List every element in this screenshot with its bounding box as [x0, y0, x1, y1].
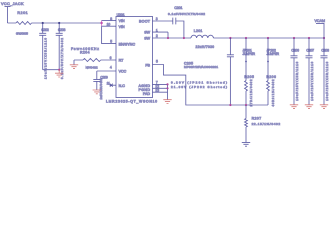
- junction VIN: [100, 22, 102, 24]
- wire AGND/PGND/PAD: [153, 84, 168, 99]
- resistor R201: [16, 22, 32, 25]
- ground IC: [163, 100, 171, 104]
- svg-text:C208: C208: [321, 49, 329, 53]
- svg-text:5: 5: [156, 60, 158, 64]
- node VCAM: [316, 23, 324, 38]
- ground R207: [242, 142, 250, 146]
- svg-text:R201: R201: [17, 11, 27, 15]
- svg-text:C202: C202: [41, 28, 49, 32]
- svg-text:VIN: VIN: [119, 19, 125, 23]
- resistor R204: [83, 59, 101, 62]
- wire input cap bottom rail: [43, 69, 60, 71]
- svg-text:10uF/25V/X5R/1210: 10uF/25V/X5R/1210: [325, 61, 329, 100]
- junction PGND: [166, 87, 168, 89]
- junction JP202 tap: [267, 37, 269, 39]
- wire BOOT: [153, 20, 173, 22]
- svg-text:FB: FB: [145, 64, 150, 68]
- svg-text:VIN: VIN: [119, 25, 125, 29]
- wire VIN pink link: [101, 21, 103, 27]
- svg-text:0R0/0805: 0R0/0805: [16, 31, 28, 35]
- svg-text:MP03P/25VAC0G0201: MP03P/25VAC0G0201: [184, 65, 218, 69]
- junction JP201 tap: [245, 37, 247, 39]
- svg-text:SW: SW: [144, 36, 150, 40]
- no-connect X: [110, 84, 113, 87]
- svg-text:7: 7: [156, 81, 158, 85]
- svg-text:SW: SW: [144, 31, 150, 35]
- ground VCC: [93, 90, 101, 94]
- junction C208 tap: [323, 37, 325, 39]
- svg-text:5: 5: [110, 40, 112, 44]
- svg-text:N.C: N.C: [119, 84, 126, 88]
- capacitor C202: [39, 33, 46, 69]
- ground C207: [305, 105, 313, 109]
- junction C202 tap: [42, 22, 44, 24]
- capacitor C206: [291, 38, 298, 105]
- wire RT: [74, 60, 116, 65]
- svg-text:0.1uF/50V/X7R/0402: 0.1uF/50V/X7R/0402: [168, 12, 205, 16]
- junction C203 tap: [58, 22, 60, 24]
- svg-text:12: 12: [155, 85, 159, 89]
- svg-text:2: 2: [156, 34, 158, 38]
- ground RT: [70, 65, 78, 69]
- svg-text:4: 4: [110, 65, 112, 69]
- wire VIN pin10 stub: [102, 25, 116, 27]
- junction BOOT join: [183, 37, 185, 39]
- resistor R207: [245, 105, 248, 142]
- capacitor C207: [306, 38, 313, 105]
- wire EN drop: [102, 26, 116, 43]
- svg-text:PGND: PGND: [139, 88, 151, 92]
- capacitor C208: [321, 38, 328, 105]
- wire VOUT rail: [213, 37, 324, 39]
- svg-text:NP/0402: NP/0402: [86, 65, 98, 69]
- junction C205-FB: [229, 104, 231, 106]
- capacitor C201: [173, 18, 184, 38]
- wire VIN rail: [8, 22, 102, 24]
- svg-text:R207: R207: [252, 117, 262, 121]
- svg-text:C207: C207: [306, 49, 314, 53]
- svg-text:RT: RT: [119, 59, 125, 63]
- svg-text:10: 10: [107, 22, 111, 26]
- junction SW join: [167, 37, 169, 39]
- junction input gnd: [58, 69, 60, 71]
- capacitor C203: [56, 33, 63, 69]
- junction C205 tap: [229, 37, 231, 39]
- svg-text:R206: R206: [266, 75, 276, 79]
- svg-text:C206: C206: [291, 49, 299, 53]
- ground input caps: [58, 70, 60, 74]
- capacitor C209: [93, 79, 100, 90]
- svg-text:EN/SYNC: EN/SYNC: [119, 42, 136, 46]
- svg-text:1uF/X5R/0402: 1uF/X5R/0402: [99, 78, 103, 100]
- IC U201 body: [116, 17, 153, 98]
- svg-text:22uH/7030: 22uH/7030: [196, 45, 215, 49]
- svg-text:11: 11: [107, 81, 111, 85]
- svg-text:R204: R204: [80, 51, 90, 55]
- svg-text:10uF/25V/X5R/1210: 10uF/25V/X5R/1210: [44, 38, 48, 79]
- svg-text:C203: C203: [58, 28, 66, 32]
- svg-text:JUMPER: JUMPER: [243, 52, 256, 56]
- svg-text:VCAM: VCAM: [315, 19, 326, 23]
- svg-text:8: 8: [110, 17, 112, 21]
- svg-text:3: 3: [156, 17, 158, 21]
- svg-text:BOOT: BOOT: [139, 20, 151, 24]
- wire VIN pin8 stub: [102, 20, 116, 22]
- junction R205-FB: [245, 104, 247, 106]
- ground C208: [320, 105, 328, 109]
- wire C202 drop: [42, 23, 44, 33]
- svg-text:13: 13: [155, 88, 159, 92]
- wire FB: [153, 65, 269, 106]
- wire SW pins: [153, 32, 192, 38]
- svg-text:JUMPER: JUMPER: [267, 52, 280, 56]
- ground C206: [290, 105, 298, 109]
- svg-text:L201: L201: [194, 29, 203, 33]
- svg-text:LMR23625-QT_WSON10: LMR23625-QT_WSON10: [106, 100, 157, 104]
- wire C203 drop: [58, 23, 60, 33]
- svg-text:R205: R205: [244, 75, 254, 79]
- svg-text:VCC: VCC: [119, 69, 127, 73]
- svg-text:U201: U201: [117, 13, 125, 17]
- svg-text:C201: C201: [174, 6, 182, 10]
- svg-text:6: 6: [110, 56, 112, 60]
- inductor L201: [191, 35, 213, 38]
- junction C206 tap: [293, 37, 295, 39]
- junction C207 tap: [308, 37, 310, 39]
- jumper JP201: [245, 38, 247, 81]
- junction AGND: [166, 83, 168, 85]
- svg-text:10uF/25V/X5R/1210: 10uF/25V/X5R/1210: [295, 61, 299, 100]
- jumper JP202: [267, 38, 269, 81]
- svg-text:PAD: PAD: [143, 92, 151, 96]
- resistor R205: [245, 81, 248, 105]
- svg-text:10uF/25V/X5R/1210: 10uF/25V/X5R/1210: [310, 61, 314, 100]
- capacitor C205: [227, 38, 234, 105]
- resistor R206: [267, 81, 270, 105]
- svg-text:9.20V (JP201 Shorted): 9.20V (JP201 Shorted): [171, 81, 227, 85]
- wire VCC: [97, 71, 116, 79]
- port VCC_JACK: [1, 2, 24, 23]
- svg-text:1: 1: [156, 28, 158, 32]
- pin N.C stub: [110, 84, 117, 86]
- svg-text:AGND: AGND: [139, 84, 151, 88]
- svg-text:VCC_JACK: VCC_JACK: [1, 2, 24, 6]
